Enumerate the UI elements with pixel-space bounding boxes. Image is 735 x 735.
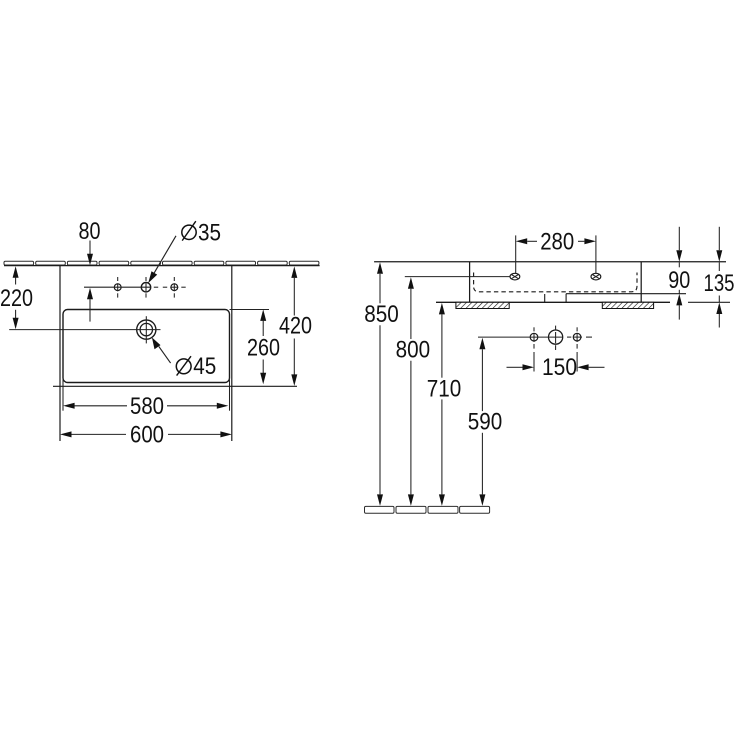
svg-text:135: 135 (704, 270, 735, 297)
svg-text:45: 45 (193, 353, 216, 380)
svg-text:580: 580 (130, 393, 164, 420)
svg-text:590: 590 (468, 409, 503, 436)
svg-text:150: 150 (542, 354, 577, 381)
svg-text:280: 280 (540, 228, 574, 255)
svg-text:600: 600 (130, 421, 164, 448)
svg-text:850: 850 (364, 301, 399, 328)
svg-text:710: 710 (427, 375, 462, 402)
svg-text:420: 420 (279, 313, 312, 340)
svg-text:35: 35 (198, 219, 221, 246)
svg-text:800: 800 (396, 337, 431, 364)
svg-text:220: 220 (0, 285, 33, 312)
svg-text:260: 260 (247, 335, 280, 362)
